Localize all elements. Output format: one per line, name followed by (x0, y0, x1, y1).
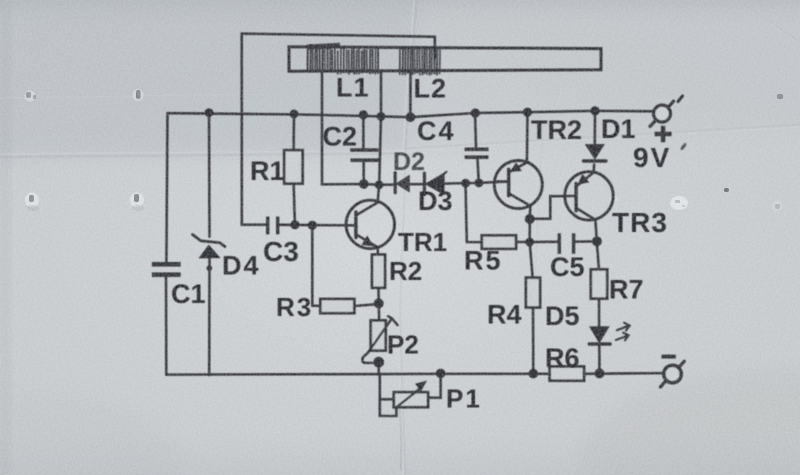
horizontal crease right segment (403, 127, 800, 151)
plus sign (655, 126, 672, 142)
junction bottom bus/P1 (436, 369, 446, 379)
wire TR2 emitter junction down (530, 219, 533, 278)
wire L1 right tap (379, 71, 381, 185)
specks (25, 89, 784, 211)
capacitor C1 (152, 264, 181, 274)
junction bus/D1 (590, 106, 599, 115)
upper-right medium panel (407, 0, 800, 152)
wire bottom return bus (166, 373, 663, 375)
faint diagonal crease top-right corner (735, 0, 800, 44)
wire C3 left lead (242, 223, 266, 226)
junction bottom bus/D5 (595, 368, 605, 378)
wire L2 left tap (409, 72, 412, 118)
bottom shading (0, 430, 800, 475)
transistor TR1 (346, 200, 394, 248)
minus sign (662, 355, 676, 359)
resistor R6 (550, 367, 584, 381)
wire C3 to TR1 base (280, 224, 356, 227)
capacitor C4 (475, 113, 476, 147)
junction detector/C4 bottom (475, 179, 484, 188)
junction P2 wiper (373, 357, 384, 368)
wire left edge down to C1 (166, 113, 167, 261)
wire feedback loop: C3 corner up, across top, down into L2 (242, 34, 435, 225)
junction TR3 collector/C5/R7 (592, 236, 602, 246)
junction bottom bus/R4 (529, 369, 539, 379)
junction base line/R1 (290, 220, 299, 229)
trimmer P2 (377, 303, 380, 320)
transistor TR3 (565, 172, 613, 220)
resistor R2 (372, 255, 385, 288)
transistor TR2 (494, 161, 542, 209)
diode D1 (594, 111, 597, 145)
junction bus/C4 (471, 108, 480, 117)
terminal minus (664, 365, 681, 382)
secondary vertical crease (533, 126, 541, 312)
upper-left darker fold panel (0, 0, 424, 159)
diode D4 zener (193, 235, 226, 272)
wire C1 bottom to bottom bus corner (165, 277, 168, 374)
diode D3 (424, 172, 446, 195)
wire step to TR3 base (530, 196, 574, 219)
diode D2 (395, 173, 409, 193)
junction bus/R1 (290, 110, 299, 119)
junction bus/D4 (205, 108, 214, 117)
coil L1 winding (307, 44, 378, 75)
junction bus/TR2 emitter (523, 108, 532, 117)
vertical main crease (398, 0, 414, 475)
resistor R7 (591, 269, 607, 298)
capacitor C2 (362, 115, 365, 148)
junction TR2 emitter/TR3 base (525, 214, 535, 224)
faint crease right of TR3 (617, 128, 621, 300)
wire R5 drop (466, 183, 482, 242)
wire L1 left tap down to detector line (321, 71, 324, 184)
capacitor C5 (530, 241, 558, 244)
wire top supply bus (168, 111, 653, 117)
wire D4 branch (208, 113, 211, 375)
coil L2 winding (400, 46, 441, 75)
wire TR3 collector to R7 (597, 241, 599, 269)
top edge shading (0, 0, 800, 26)
resistor R5 (482, 235, 516, 248)
left edge shade (0, 0, 10, 475)
wire detector line to TR2 base (322, 182, 507, 185)
junction tank/TR1 collector (375, 180, 384, 189)
white damage spot right of TR3 (610, 196, 688, 210)
diode D5 (LED) (590, 327, 608, 342)
lower-left soft dim (0, 390, 180, 475)
resistor R3 (320, 299, 354, 313)
junction tank/C2 bottom (359, 179, 369, 189)
junction detector/R5 (461, 179, 470, 188)
resistor R4 (526, 278, 540, 308)
resistor R1 (292, 114, 295, 150)
junction base line/R3 (308, 221, 317, 230)
ferrite rod (289, 47, 601, 72)
lower-right warm dim (580, 370, 800, 475)
9V tick (681, 144, 686, 150)
LED arrows (616, 323, 630, 340)
capacitor C3 (268, 217, 278, 235)
junction R5/C5/R4 (525, 238, 534, 247)
junction bus/L2 tap (406, 112, 416, 122)
terminal + (654, 105, 671, 122)
junction R2/R3/P2 (374, 298, 384, 308)
junction bus/C2 (359, 110, 368, 119)
wire R3 drop (312, 225, 320, 305)
junction bus/L1 tap (377, 112, 386, 121)
trimmer P1 (380, 375, 394, 399)
faint horizontal crease upper-left (0, 95, 238, 99)
horizontal crease left segment (0, 151, 403, 155)
